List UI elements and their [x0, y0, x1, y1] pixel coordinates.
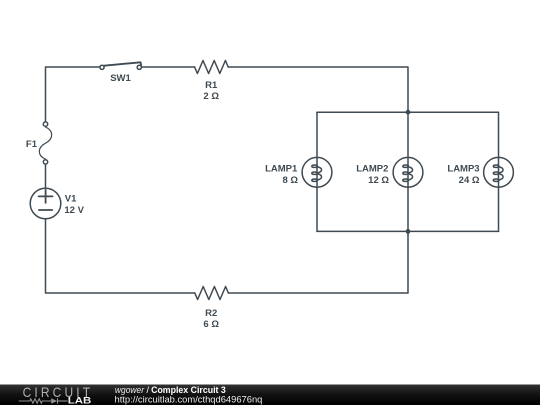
lamp LAMP1 filament wire through	[316, 157, 318, 187]
wire lamp1 branch vertical	[316, 112, 318, 231]
svg-text:12 Ω: 12 Ω	[368, 175, 389, 186]
voltage source V1 circle	[30, 188, 61, 219]
V1 plus sign	[39, 190, 53, 203]
svg-text:LAMP3: LAMP3	[447, 164, 479, 175]
CircuitLab logo text CIRCUIT	[23, 384, 91, 400]
svg-text:LAMP2: LAMP2	[356, 164, 388, 175]
junction node top of LAMP2 branch	[406, 110, 411, 115]
svg-text:R2: R2	[205, 308, 217, 319]
wire R1 to top-right corner, down to junction	[228, 67, 408, 112]
wire V1 top to fuse bottom	[45, 165, 47, 188]
lamp LAMP3 circle	[484, 157, 514, 187]
svg-text:24 Ω: 24 Ω	[459, 175, 480, 186]
svg-text:V1: V1	[65, 193, 77, 204]
svg-text:2 Ω: 2 Ω	[203, 91, 219, 102]
wire top-left corner to switch	[46, 67, 101, 121]
lamp LAMP1 circle	[302, 157, 332, 187]
switch SW1 lever	[104, 62, 141, 65]
fuse F1 top terminal	[43, 122, 47, 126]
fuse F1 bottom terminal	[43, 160, 47, 164]
resistor R2	[195, 287, 229, 300]
lamp LAMP3 filament wire through	[498, 157, 500, 187]
svg-text:LAMP1: LAMP1	[265, 164, 298, 175]
wire R2 to bottom-left corner up to V1	[46, 219, 195, 293]
svg-text:8 Ω: 8 Ω	[282, 175, 298, 186]
svg-text:F1: F1	[26, 139, 38, 150]
V1 minus sign	[39, 209, 52, 211]
lamp LAMP2 filament coil	[403, 165, 413, 181]
lamp LAMP3 filament coil	[493, 165, 503, 181]
svg-text:LAB: LAB	[68, 396, 92, 405]
wire lamp2 branch vertical	[407, 112, 409, 231]
resistor R1	[195, 61, 229, 74]
svg-text:12 V: 12 V	[64, 205, 84, 216]
CircuitLab logo schematic squiggle: resistor and diode	[19, 398, 68, 404]
switch SW1 right terminal	[137, 65, 141, 69]
wire parallel top rail	[317, 111, 499, 113]
svg-text:http://circuitlab.com/cthqd649: http://circuitlab.com/cthqd649676nq	[115, 393, 263, 404]
wire junction to bottom-right corner to R2	[228, 231, 408, 293]
lamp LAMP1 filament coil	[312, 165, 322, 181]
switch SW1 left terminal	[100, 65, 104, 69]
svg-text:6 Ω: 6 Ω	[203, 319, 219, 330]
wire parallel bottom rail	[317, 230, 499, 232]
fuse F1 squiggle	[39, 127, 51, 159]
lamp LAMP2 circle	[393, 157, 423, 187]
svg-text:R1: R1	[205, 80, 218, 91]
lamp LAMP2 filament wire through	[407, 157, 409, 187]
wire lamp3 branch vertical	[498, 112, 500, 231]
wire switch to R1	[142, 66, 195, 68]
junction node bottom of LAMP2 branch	[406, 229, 411, 234]
svg-text:SW1: SW1	[110, 73, 131, 84]
